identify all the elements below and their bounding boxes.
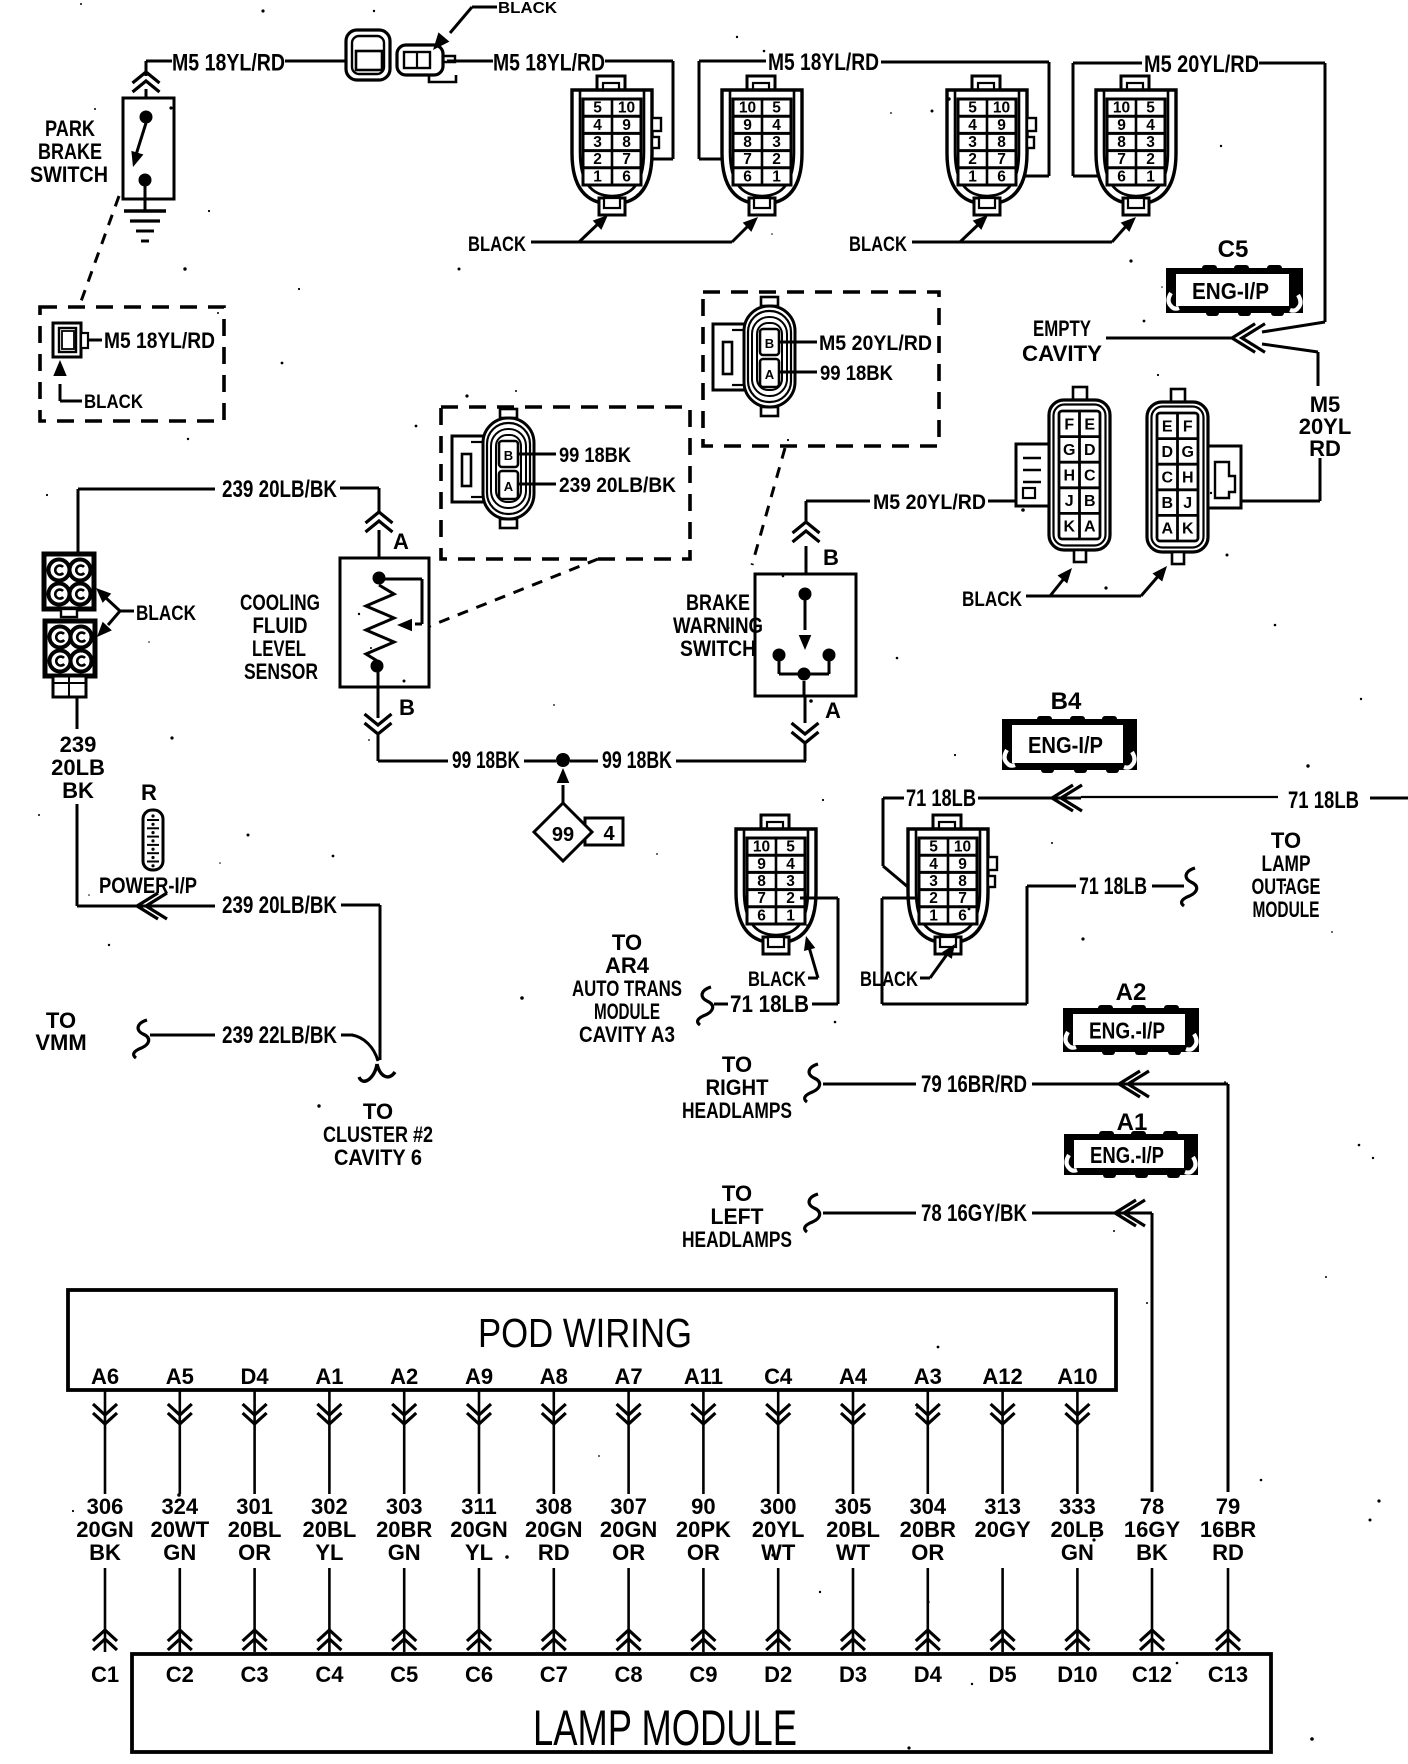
svg-text:71 18LB: 71 18LB [1079, 873, 1147, 900]
svg-text:7: 7 [958, 890, 967, 907]
svg-text:B: B [1084, 493, 1096, 510]
svg-text:7: 7 [622, 151, 631, 168]
wire 305 20BL WT (column A4) [852, 1390, 855, 1494]
wire brake switch terminal B [805, 501, 808, 522]
svg-text:78 16GY/BK: 78 16GY/BK [921, 1200, 1028, 1227]
svg-text:C5: C5 [1218, 236, 1249, 263]
svg-text:79: 79 [1216, 1494, 1240, 1519]
svg-text:H: H [1063, 468, 1075, 485]
wire pin B to label [519, 453, 556, 456]
brake switch top contact [799, 588, 812, 601]
wire M5 20YL/RD to letter connector [806, 500, 870, 503]
svg-text:C3: C3 [241, 1662, 269, 1687]
svg-text:M5 20YL/RD: M5 20YL/RD [1144, 51, 1259, 78]
svg-text:A: A [765, 367, 775, 382]
svg-text:TO: TO [363, 1099, 393, 1124]
svg-text:E: E [1084, 416, 1095, 433]
wire hook (TO CLUSTER) [359, 1064, 395, 1081]
svg-text:8: 8 [997, 134, 1006, 151]
svg-text:3: 3 [929, 873, 938, 890]
svg-text:3: 3 [593, 134, 602, 151]
svg-text:20BL: 20BL [826, 1517, 880, 1542]
svg-text:A1: A1 [315, 1364, 343, 1389]
wire M5 20YL/RD to C5 cavity [1259, 62, 1325, 65]
wire label to cavity arrow [978, 797, 1081, 800]
svg-text:PARK: PARK [45, 116, 95, 141]
svg-text:BLACK: BLACK [849, 233, 907, 256]
wire break squiggle (lamp outage) [1182, 868, 1197, 906]
svg-text:J: J [1065, 493, 1074, 510]
svg-text:TO: TO [722, 1052, 752, 1077]
splice index box 4 [585, 818, 623, 845]
2-pin oval connector (brake warning switch) [713, 297, 795, 416]
svg-text:M5 18YL/RD: M5 18YL/RD [104, 328, 215, 353]
junction node 99 18BK [556, 753, 570, 767]
wire 78 16GY/BK [823, 1212, 916, 1215]
wire break squiggle (TO VMM) [134, 1020, 149, 1058]
svg-text:16GY: 16GY [1124, 1517, 1181, 1542]
svg-text:20LB: 20LB [1051, 1517, 1105, 1542]
svg-text:71 18LB: 71 18LB [730, 991, 809, 1018]
svg-text:8: 8 [622, 134, 631, 151]
svg-text:A5: A5 [166, 1364, 194, 1389]
wire 79 16BR/RD [823, 1083, 916, 1086]
park brake switch top contact [140, 111, 153, 124]
svg-text:D: D [1084, 442, 1096, 459]
wire 308 20GN RD (column A8) [552, 1390, 555, 1494]
svg-text:239 22LB/BK: 239 22LB/BK [222, 1022, 338, 1049]
svg-text:9: 9 [743, 117, 752, 134]
leader BLACK to C7 [920, 977, 930, 980]
wire 99 18BK (sensor B to brake switch A) [378, 760, 448, 763]
svg-text:4: 4 [1146, 117, 1155, 134]
svg-text:EMPTY: EMPTY [1033, 316, 1091, 341]
wire label to squiggle [1152, 885, 1184, 888]
wire 71 18LB to page edge [1370, 797, 1408, 800]
svg-text:324: 324 [161, 1494, 198, 1519]
svg-text:BLACK: BLACK [136, 602, 196, 625]
svg-text:FLUID: FLUID [253, 613, 308, 638]
svg-text:K: K [1063, 519, 1075, 536]
brake switch bottom contact [798, 668, 811, 681]
svg-text:99 18BK: 99 18BK [820, 362, 893, 385]
svg-text:2: 2 [1146, 151, 1155, 168]
svg-text:CAVITY A3: CAVITY A3 [579, 1022, 675, 1047]
svg-text:ENG.-I/P: ENG.-I/P [1089, 1018, 1165, 1044]
svg-text:RD: RD [538, 1540, 570, 1565]
svg-text:A2: A2 [1116, 979, 1147, 1006]
svg-text:B: B [765, 336, 774, 351]
cooling fluid level sensor box [340, 558, 429, 687]
sensor wiper arm [385, 578, 422, 581]
wire break squiggle (AR4) [698, 987, 713, 1025]
svg-text:TO: TO [1271, 828, 1301, 853]
svg-text:C: C [1084, 468, 1096, 485]
wire 302 20BL YL (column A1) [328, 1390, 331, 1494]
svg-text:6: 6 [958, 907, 967, 924]
connector A1 ENG.-I/P box [1064, 1131, 1198, 1178]
svg-text:B: B [504, 448, 513, 463]
wire switch to ground [144, 186, 147, 211]
svg-text:GN: GN [1061, 1540, 1094, 1565]
svg-text:20LB: 20LB [51, 755, 105, 780]
svg-text:CLUSTER #2: CLUSTER #2 [323, 1122, 433, 1147]
wire break squiggle (left headlamps) [805, 1194, 820, 1232]
svg-text:BLACK: BLACK [962, 588, 1022, 611]
wire 239 22LB/BK [150, 1034, 215, 1037]
wire 300 20YL WT (column C4) [777, 1390, 780, 1494]
svg-text:A3: A3 [914, 1364, 942, 1389]
svg-text:TO: TO [612, 930, 642, 955]
wire pin B to label [780, 341, 817, 344]
svg-text:D10: D10 [1057, 1662, 1097, 1687]
leader BLACK to letter connectors [1026, 595, 1141, 598]
wire 333 20LB GN (column A10) [1076, 1390, 1079, 1494]
svg-text:M5 18YL/RD: M5 18YL/RD [768, 49, 879, 76]
cavity arrow (C5) [1232, 324, 1255, 353]
svg-text:20GY: 20GY [974, 1517, 1031, 1542]
svg-text:5: 5 [593, 100, 602, 117]
leader BLACK to connector (detail box) [60, 400, 82, 403]
leader BLACK to C3 and C4 [912, 241, 1112, 244]
svg-text:303: 303 [386, 1494, 423, 1519]
cavity arrow (A1) [1115, 1200, 1136, 1226]
connector C6 (10-pin, left) [736, 815, 816, 954]
svg-text:239 20LB/BK: 239 20LB/BK [222, 476, 338, 503]
svg-text:A12: A12 [982, 1364, 1022, 1389]
svg-text:TO: TO [722, 1181, 752, 1206]
svg-text:HEADLAMPS: HEADLAMPS [682, 1227, 792, 1252]
svg-text:C5: C5 [390, 1662, 418, 1687]
leader empty cavity to C5 arrow [1106, 337, 1232, 340]
svg-text:HEADLAMPS: HEADLAMPS [682, 1098, 792, 1123]
svg-text:20WT: 20WT [150, 1517, 209, 1542]
4-pin connector (cooling sensor, upper) [44, 554, 94, 617]
svg-text:M5 18YL/RD: M5 18YL/RD [172, 50, 285, 77]
leader BLACK to 4-pin connectors [120, 610, 134, 613]
connector C7 (10-pin, right) [908, 815, 997, 954]
svg-text:3: 3 [1146, 134, 1155, 151]
cavity arrow (71 18LB) [1052, 785, 1073, 811]
svg-text:79 16BR/RD: 79 16BR/RD [921, 1071, 1027, 1098]
svg-text:B: B [399, 695, 415, 720]
dashed detail box (park brake connector) [40, 307, 224, 421]
dashed detail box (cooling fluid sensor connector) [441, 407, 690, 559]
wire 304 20BR OR (column A3) [926, 1390, 929, 1494]
brake switch bridge [778, 659, 781, 674]
svg-text:C4: C4 [764, 1364, 793, 1389]
dashed leader box to brake warning switch [752, 448, 785, 565]
svg-text:1: 1 [968, 168, 977, 185]
svg-text:A9: A9 [465, 1364, 493, 1389]
svg-text:C4: C4 [315, 1662, 344, 1687]
svg-text:F: F [1064, 416, 1074, 433]
svg-text:78: 78 [1140, 1494, 1164, 1519]
svg-text:302: 302 [311, 1494, 348, 1519]
svg-text:LAMP: LAMP [1262, 851, 1311, 876]
wire 306 20GN BK (column A6) [104, 1390, 107, 1494]
svg-text:6: 6 [743, 168, 752, 185]
svg-text:MODULE: MODULE [594, 999, 660, 1024]
svg-text:D4: D4 [914, 1662, 943, 1687]
svg-text:6: 6 [622, 168, 631, 185]
svg-text:9: 9 [958, 856, 967, 873]
connector C1 (10-pin) [572, 76, 661, 215]
sensor resistor element [366, 585, 394, 662]
ground symbol [124, 209, 166, 212]
svg-text:WT: WT [761, 1540, 796, 1565]
LAMP MODULE box [132, 1654, 1271, 1752]
svg-text:8: 8 [958, 873, 967, 890]
wire sensor terminal B [377, 672, 380, 718]
svg-text:6: 6 [1117, 168, 1126, 185]
cavity arrow (POWER-I/P) [137, 893, 158, 919]
svg-text:RD: RD [1309, 436, 1341, 461]
connector C5 ENG-I/P box [1166, 265, 1303, 316]
svg-text:8: 8 [743, 134, 752, 151]
connector C3 (10-pin) [947, 76, 1036, 215]
svg-text:A: A [825, 698, 841, 723]
svg-text:3: 3 [786, 873, 795, 890]
wire label to connector C3 pin 6 [881, 61, 1049, 64]
svg-text:306: 306 [87, 1494, 124, 1519]
wire 71 18LB from connector C6 pin 2 [883, 797, 904, 800]
svg-text:308: 308 [535, 1494, 572, 1519]
svg-text:99 18BK: 99 18BK [559, 444, 631, 467]
svg-text:6: 6 [997, 168, 1006, 185]
svg-text:10: 10 [739, 100, 756, 117]
svg-text:7: 7 [1117, 151, 1126, 168]
letter connector (right, E-A) [1147, 389, 1241, 564]
svg-text:10: 10 [618, 100, 635, 117]
wire break squiggle (right headlamps) [805, 1064, 820, 1102]
svg-text:4: 4 [968, 117, 977, 134]
svg-text:BLACK: BLACK [498, 0, 557, 17]
svg-text:R: R [141, 780, 157, 805]
svg-text:OUTAGE: OUTAGE [1252, 874, 1321, 899]
svg-text:A8: A8 [540, 1364, 568, 1389]
svg-text:7: 7 [997, 151, 1006, 168]
svg-text:5: 5 [929, 839, 938, 856]
svg-text:313: 313 [984, 1494, 1021, 1519]
svg-text:4: 4 [603, 823, 615, 845]
2-pin oval connector (cooling fluid sensor) [452, 409, 534, 528]
svg-text:E: E [1162, 418, 1173, 435]
svg-text:RD: RD [1212, 1540, 1244, 1565]
svg-text:AUTO TRANS: AUTO TRANS [572, 976, 682, 1001]
svg-text:2: 2 [929, 890, 938, 907]
svg-text:J: J [1183, 495, 1192, 512]
svg-text:2: 2 [772, 151, 781, 168]
svg-text:D4: D4 [241, 1364, 270, 1389]
park brake switch bottom contact [139, 174, 152, 187]
wire label to inline connector [285, 60, 346, 63]
svg-text:7: 7 [743, 151, 752, 168]
svg-text:99 18BK: 99 18BK [452, 747, 520, 774]
wire C6 pin 2 loop [800, 897, 838, 900]
svg-text:5: 5 [772, 100, 781, 117]
svg-text:10: 10 [753, 839, 770, 856]
svg-text:10: 10 [993, 100, 1010, 117]
svg-text:20BR: 20BR [900, 1517, 956, 1542]
sensor top contact [373, 572, 386, 585]
POD WIRING box [68, 1290, 1116, 1390]
svg-text:OR: OR [612, 1540, 645, 1565]
svg-text:A: A [1084, 519, 1096, 536]
svg-text:9: 9 [1117, 117, 1126, 134]
svg-text:D: D [1161, 444, 1173, 461]
svg-text:SWITCH: SWITCH [680, 636, 756, 661]
svg-text:M5 20YL/RD: M5 20YL/RD [873, 491, 986, 514]
connector continuation chevron (park brake wire) [133, 72, 160, 83]
svg-text:20BR: 20BR [376, 1517, 432, 1542]
wire 311 20GN YL (column A9) [478, 1390, 481, 1494]
svg-text:4: 4 [772, 117, 781, 134]
svg-text:301: 301 [236, 1494, 273, 1519]
svg-text:C8: C8 [615, 1662, 643, 1687]
svg-text:9: 9 [997, 117, 1006, 134]
svg-text:6: 6 [757, 907, 766, 924]
svg-text:20GN: 20GN [76, 1517, 133, 1542]
brake warning switch box [755, 574, 856, 696]
wire brake switch terminal A [803, 681, 806, 696]
dashed leader box to sensor [425, 559, 598, 628]
wire to letter connector pin J [1319, 458, 1322, 501]
svg-text:GN: GN [163, 1540, 196, 1565]
svg-text:1: 1 [593, 168, 602, 185]
svg-text:MODULE: MODULE [1253, 897, 1320, 922]
svg-text:3: 3 [772, 134, 781, 151]
wire 301 20BL OR (column D4) [253, 1390, 256, 1494]
svg-text:G: G [1063, 442, 1075, 459]
svg-text:BLACK: BLACK [84, 392, 143, 413]
svg-text:4: 4 [929, 856, 938, 873]
svg-text:BK: BK [1136, 1540, 1168, 1565]
wire pin A to label [519, 483, 556, 486]
svg-text:239 20LB/BK: 239 20LB/BK [559, 474, 676, 497]
svg-text:A2: A2 [390, 1364, 418, 1389]
svg-text:2: 2 [593, 151, 602, 168]
4-pin connector (cooling sensor, lower) [45, 621, 95, 697]
svg-text:300: 300 [760, 1494, 797, 1519]
svg-text:C: C [1161, 470, 1173, 487]
terminal A chevron [366, 512, 393, 523]
svg-text:20PK: 20PK [676, 1517, 731, 1542]
connector B4 ENG-I/P box [1002, 716, 1137, 773]
svg-text:10: 10 [954, 839, 971, 856]
wire male connector to label [447, 60, 493, 63]
svg-text:1: 1 [786, 907, 795, 924]
svg-text:239: 239 [60, 732, 97, 757]
svg-text:239 20LB/BK: 239 20LB/BK [222, 892, 338, 919]
svg-text:GN: GN [388, 1540, 421, 1565]
svg-text:OR: OR [911, 1540, 944, 1565]
dashed detail box (brake warning switch connector) [703, 292, 939, 446]
svg-text:1: 1 [772, 168, 781, 185]
connector A2 ENG.-I/P box [1063, 1005, 1199, 1055]
svg-text:1: 1 [1146, 168, 1155, 185]
svg-text:D5: D5 [989, 1662, 1017, 1687]
svg-text:8: 8 [757, 873, 766, 890]
cavity arrow (A2) [1119, 1071, 1140, 1097]
wire pin A to label [780, 371, 817, 374]
svg-text:311: 311 [461, 1494, 497, 1519]
terminal B chevron (brake switch) [793, 522, 820, 533]
wire to connector C4 pin 6 [1073, 62, 1142, 65]
wire 90 20PK OR (column A11) [702, 1390, 705, 1494]
svg-text:2: 2 [786, 890, 795, 907]
inline male connector (M5 18YL/RD splice) [397, 45, 443, 75]
svg-text:20BL: 20BL [228, 1517, 282, 1542]
svg-text:LEVEL: LEVEL [252, 636, 306, 661]
svg-text:305: 305 [835, 1494, 872, 1519]
svg-text:5: 5 [786, 839, 795, 856]
wire M5 18YL/RD from park brake switch [146, 60, 172, 63]
svg-text:WT: WT [836, 1540, 871, 1565]
svg-text:4: 4 [786, 856, 795, 873]
svg-text:CAVITY 6: CAVITY 6 [334, 1145, 422, 1170]
svg-text:C7: C7 [540, 1662, 568, 1687]
svg-text:C2: C2 [166, 1662, 194, 1687]
svg-text:BLACK: BLACK [860, 968, 918, 991]
svg-text:A: A [504, 479, 514, 494]
svg-text:YL: YL [465, 1540, 493, 1565]
connector C4 (10-pin) [1096, 76, 1176, 215]
svg-text:OR: OR [238, 1540, 271, 1565]
wire 239 20LB/BK to sensor terminal A [78, 488, 215, 491]
svg-text:C6: C6 [465, 1662, 493, 1687]
wire 303 20BR GN (column A2) [403, 1390, 406, 1494]
wire connector to label M5 18YL/RD [88, 339, 102, 342]
svg-text:A: A [393, 529, 409, 554]
svg-text:20BL: 20BL [303, 1517, 357, 1542]
svg-text:OR: OR [687, 1540, 720, 1565]
svg-text:POD WIRING: POD WIRING [478, 1310, 692, 1356]
wire 239 20LB BK down from connector [76, 697, 79, 729]
svg-text:VMM: VMM [35, 1030, 86, 1055]
svg-text:LEFT: LEFT [711, 1204, 765, 1229]
leader BLACK to C1 and C2 [531, 241, 732, 244]
wire 307 20GN OR (column A7) [627, 1390, 630, 1494]
svg-text:M5 18YL/RD: M5 18YL/RD [493, 50, 605, 77]
svg-text:A7: A7 [615, 1364, 643, 1389]
svg-text:SWITCH: SWITCH [30, 162, 108, 187]
svg-text:C9: C9 [689, 1662, 717, 1687]
wire 324 20WT GN (column A5) [179, 1390, 182, 1494]
svg-text:COOLING: COOLING [240, 590, 320, 615]
svg-text:BLACK: BLACK [748, 968, 806, 991]
terminal A chevron (brake switch) [792, 732, 819, 743]
svg-text:5: 5 [1146, 100, 1155, 117]
wire 71 18LB long run [1081, 796, 1278, 798]
svg-text:CAVITY: CAVITY [1022, 341, 1102, 366]
park brake switch box [123, 98, 174, 199]
svg-text:C13: C13 [1208, 1662, 1248, 1687]
svg-text:A11: A11 [684, 1364, 723, 1389]
svg-text:99: 99 [552, 824, 574, 846]
svg-text:90: 90 [691, 1494, 715, 1519]
terminal B chevron [365, 723, 392, 734]
svg-text:BK: BK [89, 1540, 121, 1565]
svg-text:ENG-I/P: ENG-I/P [1192, 278, 1269, 304]
svg-text:99 18BK: 99 18BK [602, 747, 672, 774]
svg-text:307: 307 [610, 1494, 647, 1519]
svg-text:A10: A10 [1057, 1364, 1097, 1389]
svg-text:2: 2 [968, 151, 977, 168]
svg-text:K: K [1182, 521, 1194, 538]
svg-text:C1: C1 [91, 1662, 119, 1687]
svg-text:F: F [1183, 418, 1193, 435]
